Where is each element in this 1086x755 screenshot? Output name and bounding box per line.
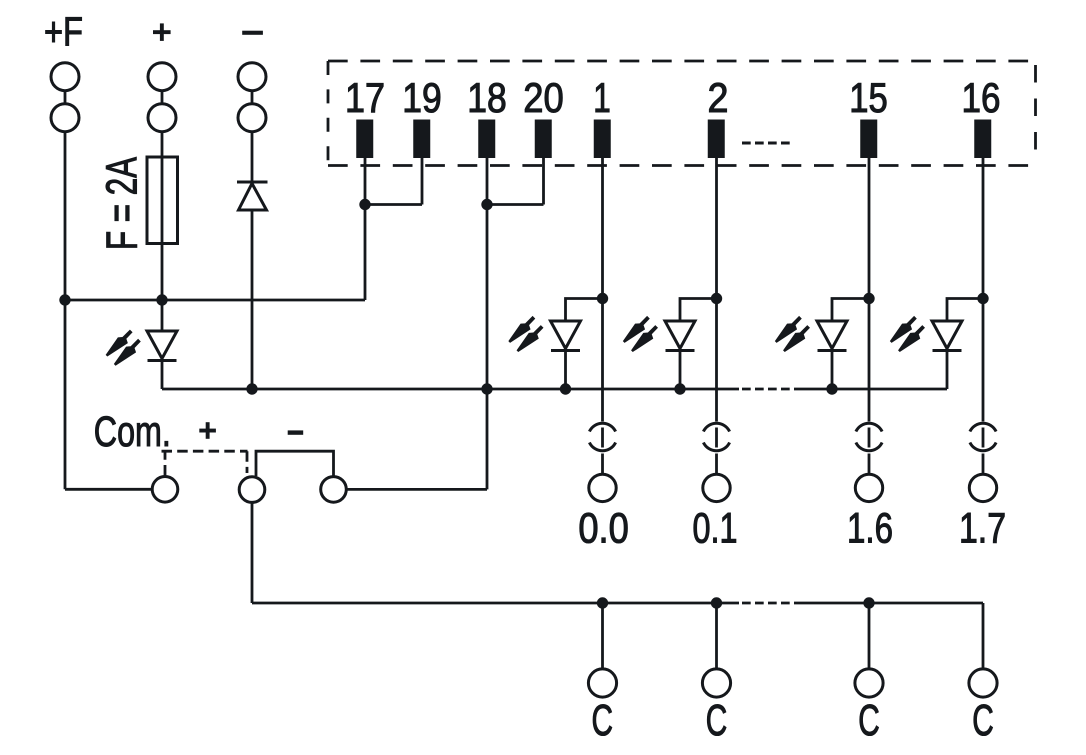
svg-text:1: 1 (593, 74, 611, 121)
svg-text:C: C (706, 696, 728, 745)
svg-text:0.0: 0.0 (578, 505, 629, 552)
svg-text:1.6: 1.6 (847, 505, 893, 552)
svg-text:C: C (972, 696, 994, 745)
svg-text:Com.: Com. (94, 408, 171, 456)
svg-text:0.1: 0.1 (693, 505, 738, 552)
svg-text:19: 19 (402, 74, 442, 121)
svg-text:C: C (858, 696, 880, 745)
svg-text:F = 2A: F = 2A (99, 157, 147, 250)
svg-text:+F: +F (44, 9, 83, 55)
svg-text:2: 2 (708, 74, 729, 121)
svg-text:17: 17 (345, 74, 385, 121)
svg-text:16: 16 (962, 74, 1001, 121)
svg-text:C: C (592, 696, 614, 745)
svg-text:18: 18 (467, 74, 507, 121)
svg-text:15: 15 (849, 74, 888, 121)
svg-text:20: 20 (523, 74, 564, 121)
svg-text:1.7: 1.7 (959, 505, 1006, 552)
